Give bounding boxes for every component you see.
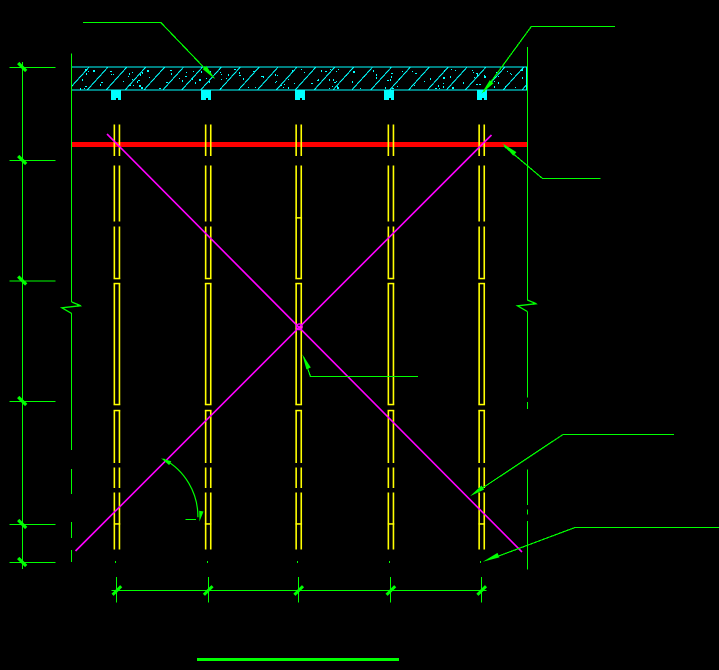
bottom dim extension P5 [480,561,481,563]
left dim tick 5 [18,520,26,528]
ledger leader arrow [502,143,516,156]
left dim tick 2 [18,156,26,164]
left dim connector 4 [10,401,56,403]
red ledger beam line [72,142,527,147]
bottom dim tick 1 [113,586,122,595]
right extension dash a [526,402,528,409]
left dim tick 4 [18,397,26,405]
left extension line mid [71,314,73,451]
node leader arrow [302,354,311,369]
left break symbol [62,302,81,314]
formwork joist tab J2 [201,90,211,100]
diagonal brace (top-left to bottom-right) [107,134,522,552]
left dim connector 1 [10,67,56,69]
scaffold post P3 [295,125,302,550]
bottom dim extension P1 [115,561,116,563]
right extension line lower [526,469,528,505]
slab concrete speckles [80,69,523,90]
bottom dim tick 2 [204,586,213,595]
slab leader arrow [203,66,216,80]
left dim connector 5 [10,524,56,526]
angle arc bottom arrow [199,511,203,522]
slab outline [72,67,527,90]
left extension dash c [71,550,73,562]
brace leader arrow [470,486,484,497]
formwork joist tab J4 [384,90,394,100]
slab leader line [83,23,214,79]
left extension line upper [71,54,73,303]
bottom dim extension P4 [389,561,390,563]
right extension line mid [526,312,528,398]
left extension dash b [71,522,73,538]
brace leader line [481,435,674,490]
diagonal brace (bottom-left to top-right) [76,135,492,551]
right extension line upper [526,47,528,300]
left dim connector 3 [10,280,56,282]
bottom dimension line [112,590,487,592]
right extension dash b [526,510,528,515]
formwork joist tab J1 [111,90,121,100]
left dim tick 6 [18,558,26,566]
left dimension line [22,62,24,569]
angle baseline [186,519,197,521]
brace crossing node circle [296,324,302,330]
left dim tick 1 [18,63,26,71]
formwork joist tab J5 [477,90,487,100]
scaffold post P2 [205,125,212,550]
bottom dim extension P2 [207,561,208,563]
scaffold post P4 [388,125,395,550]
angle arc top arrow [161,458,171,465]
joist leader arrow [481,80,493,94]
angle arc [163,459,198,517]
right extension line bottom [526,521,528,569]
bottom dim tick 4 [387,586,396,595]
title underline [197,658,399,661]
left dim connector 6 [10,562,56,564]
bottom dim tick 5 [477,586,486,595]
ledger leader line [504,146,601,179]
right break symbol [518,300,537,312]
scaffold post P1 [114,125,121,550]
bottom dim extension P3 [297,561,298,563]
left extension dash a [71,469,73,494]
joist leader line [484,27,616,93]
formwork joist tab J3 [295,90,305,100]
base leader arrow [483,553,500,562]
node leader line [304,357,418,377]
bottom dim tick 3 [294,586,303,595]
left dim tick 3 [18,277,26,285]
scaffold post P5 [478,125,485,550]
base leader line [496,528,719,558]
left dim connector 2 [10,160,56,162]
